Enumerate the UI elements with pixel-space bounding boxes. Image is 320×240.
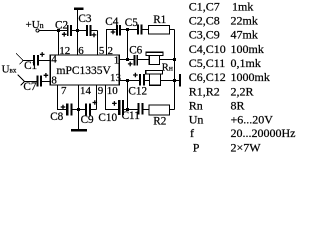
svg-text:9: 9	[98, 85, 104, 97]
wire speaker1 to bus	[160, 59, 175, 61]
junction pin13 riser	[126, 79, 129, 82]
svg-text:C4: C4	[105, 16, 118, 28]
svg-text:1mk: 1mk	[232, 0, 253, 14]
input connector XS2	[18, 75, 25, 86]
svg-text:C5,C11: C5,C11	[189, 56, 226, 70]
svg-text:C8: C8	[50, 111, 63, 123]
wire C6 to speaker1	[138, 59, 149, 61]
junction speaker1 bus	[173, 58, 176, 61]
capacitor C11 plates	[137, 103, 139, 115]
junction rail riser C5	[126, 28, 129, 31]
wire pin10 drop	[106, 85, 119, 110]
svg-text:C5: C5	[125, 17, 138, 29]
wire stub to common terminal	[175, 80, 179, 82]
wire pin14 drop	[78, 85, 80, 110]
wire C7 to pin8	[42, 81, 50, 83]
ground stem	[78, 110, 80, 130]
wire C11 to R2	[144, 109, 149, 111]
ground bar	[71, 129, 87, 132]
svg-text:R1,R2: R1,R2	[189, 84, 220, 98]
junction speaker2 bus	[173, 79, 176, 82]
svg-text:C6,C12: C6,C12	[189, 70, 226, 84]
wire XS2 to C7	[25, 81, 37, 83]
svg-text:R2: R2	[153, 115, 166, 127]
wire C9 to pin9	[91, 109, 97, 111]
svg-text:f: f	[190, 126, 194, 140]
speaker Rn2	[146, 71, 163, 74]
svg-text:C10: C10	[98, 112, 117, 124]
wire pin6 riser with power rail	[77, 10, 79, 55]
svg-text:C4,C10: C4,C10	[189, 42, 226, 56]
svg-text:12: 12	[59, 45, 70, 57]
plus mark C2	[62, 32, 67, 37]
svg-text:5: 5	[99, 45, 105, 57]
junction pin14 ground	[77, 108, 80, 111]
parts value table	[189, 0, 296, 154]
wire riser pin13 to bottom	[127, 81, 129, 110]
resistor R2	[149, 105, 170, 115]
svg-text:Rн: Rн	[162, 63, 173, 74]
svg-text:+Un: +Un	[26, 19, 44, 31]
wire top rail right	[121, 29, 149, 31]
svg-text:R1: R1	[153, 14, 166, 26]
plus mark C4	[111, 30, 116, 35]
plus polarity marks	[40, 30, 138, 110]
node +Un terminal	[36, 29, 39, 32]
svg-text:mPC1335V: mPC1335V	[57, 65, 112, 77]
svg-text:Rn: Rn	[189, 99, 203, 113]
svg-text:C3: C3	[78, 13, 91, 25]
plus mark C6	[128, 62, 133, 67]
resistor R1	[149, 26, 170, 35]
capacitor C10 plates	[118, 100, 120, 115]
wire C8 to C9	[73, 109, 86, 111]
svg-text:P: P	[193, 140, 200, 153]
svg-text:2: 2	[108, 45, 114, 57]
capacitor C7 plates	[37, 75, 39, 86]
svg-text:C7: C7	[23, 81, 36, 93]
wire XS1 to C1	[23, 60, 33, 62]
wire top rail left	[39, 30, 97, 32]
plus mark C12	[133, 73, 138, 78]
capacitor C4 plates	[116, 25, 118, 36]
plus mark C9	[93, 100, 98, 105]
svg-text:100mk: 100mk	[231, 42, 264, 56]
svg-text:10: 10	[107, 85, 119, 97]
svg-text:4: 4	[51, 54, 57, 66]
wire right bus	[174, 30, 176, 110]
wire pin5 drop	[97, 31, 99, 56]
wire pin2 riser	[107, 30, 117, 56]
wire C10 to C11	[124, 109, 137, 111]
svg-text:Un: Un	[189, 113, 204, 127]
svg-text:C1,C7: C1,C7	[189, 0, 220, 14]
svg-text:1000mk: 1000mk	[231, 70, 270, 84]
plus mark C10	[112, 101, 117, 106]
capacitor C9 plates	[85, 104, 87, 116]
svg-text:13: 13	[110, 72, 122, 84]
svg-text:C2,C8: C2,C8	[189, 13, 220, 27]
wire speaker2 to bus	[161, 80, 175, 82]
svg-text:22mk: 22mk	[231, 13, 258, 27]
junction pin12 rail	[57, 29, 60, 32]
svg-text:2×7W: 2×7W	[231, 140, 262, 153]
svg-text:8: 8	[51, 74, 57, 86]
wire pin9 drop	[96, 85, 98, 110]
wire R2 to bus	[170, 109, 175, 111]
wire pin7 drop	[58, 85, 67, 110]
svg-text:6: 6	[78, 45, 84, 57]
junction bottom riser	[126, 108, 129, 111]
speaker Rn1	[146, 52, 163, 55]
svg-text:C12: C12	[128, 86, 147, 98]
svg-text:47mk: 47mk	[231, 28, 258, 42]
common terminal bar	[179, 74, 181, 86]
capacitor C8 plates	[66, 103, 68, 115]
svg-text:1: 1	[114, 54, 120, 66]
wire pin13 to C12	[119, 80, 139, 82]
junction pin6 rail	[76, 29, 79, 32]
svg-text:C1: C1	[24, 60, 37, 72]
svg-text:C3,C9: C3,C9	[189, 28, 220, 42]
plus mark C3	[92, 33, 97, 38]
svg-text:8R: 8R	[231, 99, 245, 113]
capacitor C5 plates	[137, 25, 139, 35]
capacitor C12 plates	[139, 74, 141, 86]
svg-text:0,1mk: 0,1mk	[231, 56, 261, 70]
IC U1 box	[50, 55, 119, 85]
svg-text:20...20000Hz: 20...20000Hz	[231, 126, 296, 140]
wire riser to pin1	[127, 30, 129, 60]
svg-text:+6...20V: +6...20V	[231, 113, 274, 127]
svg-text:14: 14	[80, 85, 92, 97]
wire pin12 riser	[58, 31, 60, 56]
svg-text:C11: C11	[122, 110, 140, 122]
svg-text:C9: C9	[81, 114, 94, 126]
input connector XS1	[16, 53, 23, 64]
svg-text:C2: C2	[55, 19, 68, 31]
wire C1 to pin4	[39, 60, 51, 62]
capacitor C1 plates	[33, 55, 35, 66]
svg-text:2,2R: 2,2R	[231, 84, 254, 98]
power rail bar	[74, 7, 83, 10]
wire pin1 to C6	[119, 59, 133, 61]
svg-text:7: 7	[61, 85, 67, 97]
plus mark C7	[44, 73, 49, 78]
wire R1 to bus	[170, 29, 175, 31]
plus mark C1	[40, 52, 45, 57]
junction pin1 riser	[126, 58, 129, 61]
capacitor C2 plates	[67, 25, 69, 36]
capacitor C3 plates	[86, 25, 88, 36]
plus mark C8	[61, 105, 66, 110]
capacitor C6 plates	[134, 55, 136, 66]
svg-text:C6: C6	[129, 44, 142, 56]
wire C12 to speaker2	[145, 80, 150, 82]
